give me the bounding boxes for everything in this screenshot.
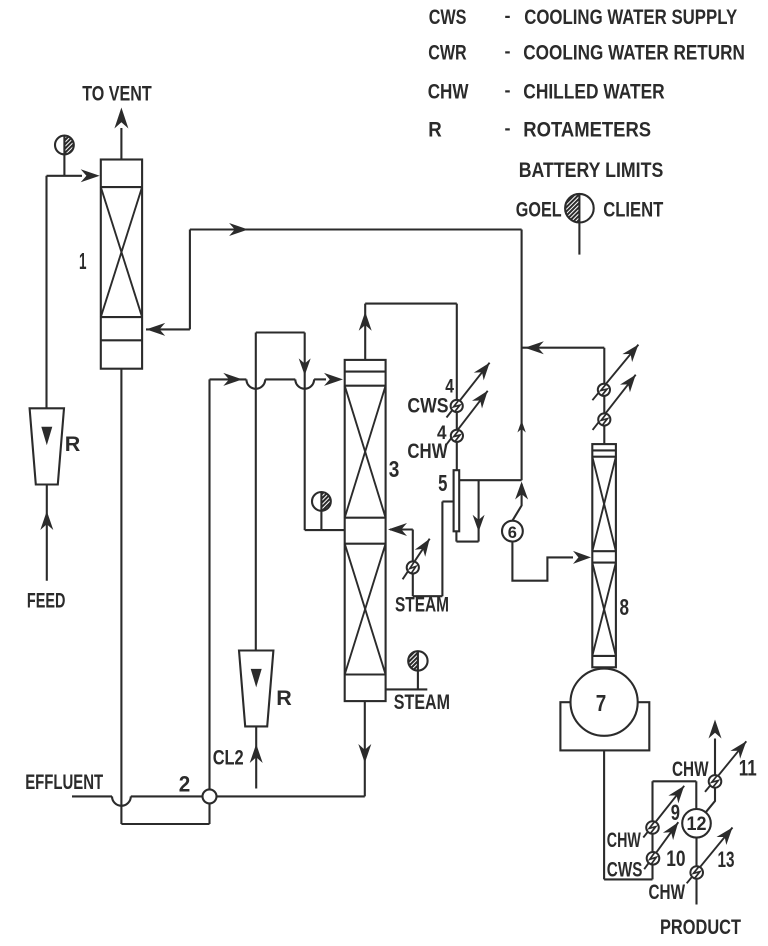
svg-text:R: R [428,118,442,142]
svg-text:11: 11 [739,756,757,781]
svg-text:CHW: CHW [607,828,641,852]
column 8 bottom band line [592,655,616,657]
svg-text:2: 2 [179,772,191,797]
wire overhead header [365,303,457,305]
wire reflux line from 5 [442,500,453,502]
wire junction2 riser [208,379,210,789]
column 8 packing X lower [592,563,616,656]
column 1 packing X [101,187,142,317]
svg-text:CHW: CHW [649,880,686,904]
svg-text:R: R [276,686,292,710]
battery limit symbol on lower inlet [321,492,330,511]
svg-text:CWS: CWS [429,5,467,29]
wire into column 3 lower inlet [305,529,345,531]
wire loop left riser [651,781,653,879]
wire condenser outlet right [459,479,521,481]
valve 4 CHW [446,391,488,446]
column 1 shell [101,160,142,369]
column 3 bottom band line [345,673,386,675]
svg-text:R: R [65,432,81,456]
wire junction 2 to column 3 drop [217,795,365,797]
line hop at CL2 riser [246,379,265,388]
wire right header drop x521 [521,230,523,481]
column 8 middle band lines [592,550,616,552]
svg-text:5: 5 [438,470,447,496]
valve on column 8 vent lower [593,375,636,430]
column 1 top band line [101,186,142,188]
column 3 shell [345,360,386,701]
steam stub line [386,688,428,690]
steam control valve [403,539,430,580]
wire valve 11 riser with arrow [714,739,716,776]
svg-text:9: 9 [671,800,680,825]
pump 6 circle [502,521,523,542]
line hop at effluent [112,796,131,805]
svg-text:EFFLUENT: EFFLUENT [25,770,103,794]
wire feed down-leg [45,176,47,408]
vessel 7 sphere [571,669,638,736]
valve 9 CHW [643,786,684,838]
svg-text:CHW: CHW [428,80,469,104]
wire CL2 riser [255,333,257,651]
valve 11 CHW [705,741,746,792]
valve 10 CWS [644,822,678,869]
wire mixer 12 to product [695,838,697,905]
column 1 lower band lines [101,316,142,318]
column 8 top band lines [592,449,616,451]
svg-text:12: 12 [687,814,707,835]
condenser 5 bar [454,470,460,531]
svg-text:COOLING WATER SUPPLY: COOLING WATER SUPPLY [524,5,737,29]
svg-text:STEAM: STEAM [395,593,449,617]
wire top header y229 [190,228,522,230]
svg-text:FEED: FEED [27,589,66,613]
column 3 packing X upper [345,386,386,518]
svg-text:1: 1 [79,248,87,274]
mixer 12 circle [682,809,711,838]
wire pump 6 discharge up [512,484,521,521]
column 3 packing X lower [345,544,386,675]
svg-text:TO VENT: TO VENT [82,81,152,105]
vent line with arrow from column 1 [120,128,122,160]
svg-text:CHW: CHW [672,757,709,781]
svg-text:-: - [505,6,511,26]
wire chlorine down-leg with arrow [304,333,306,531]
svg-text:10: 10 [666,846,685,871]
wire feed into column 1 [47,175,83,177]
svg-text:CWS: CWS [607,858,643,882]
svg-text:CLIENT: CLIENT [603,198,663,222]
svg-text:GOEL: GOEL [516,198,562,222]
feed line below rotameter with arrow [46,485,48,581]
svg-text:-: - [505,41,511,61]
wire column 1 bottoms drop [120,369,122,824]
wire pump 6 suction path [512,542,573,581]
column 3 vent riser with arrow [364,304,366,360]
valve 13 CHW [687,828,733,884]
wire loop top [653,780,697,782]
wire feed header into column 3 [210,378,247,380]
svg-text:CHILLED WATER: CHILLED WATER [523,80,665,104]
junction circle 2 [203,789,217,803]
svg-text:CHW: CHW [407,439,448,463]
column 3 top band lines [345,371,386,373]
wire hat over hops [256,331,305,333]
svg-text:3: 3 [389,456,400,482]
svg-text:6: 6 [508,524,517,542]
legend battery limit symbol [565,194,579,223]
column 8 shell [592,444,616,667]
vessel 7 cradle [560,702,649,750]
svg-text:-: - [505,80,511,100]
battery limit symbol at feed [64,136,73,155]
svg-text:CWS: CWS [407,393,448,417]
column 3 middle band lines [345,517,386,519]
line hop at chlorine down-leg [295,379,314,388]
battery limit symbol steam [408,651,418,670]
wire drop into mixer 12 [695,781,697,809]
valve on column 8 vent upper [592,345,638,401]
rotameter R feed [30,408,64,484]
svg-text:BATTERY LIMITS: BATTERY LIMITS [519,158,664,182]
wire loop bottom [604,878,652,880]
wire effluent line [72,795,112,797]
wire column 3 bottoms drop with arrow [364,701,366,796]
wire riser x190 [189,230,191,330]
wire vessel 7 bottoms drop [603,750,605,879]
wire underpass bottom [121,823,209,825]
wire condensate branch with arrow [478,480,480,541]
wire valve 11 to mixer 12 [706,788,716,813]
svg-text:COOLING WATER RETURN: COOLING WATER RETURN [523,41,745,65]
valve 4 CWS [447,363,490,418]
svg-text:STEAM: STEAM [394,690,450,714]
wire column1 outlet to riser [146,328,190,330]
rotameter R CL2 [239,651,273,727]
svg-text:7: 7 [596,690,607,716]
svg-text:8: 8 [620,594,630,620]
steam line riser with arrow into column 3 [412,530,414,597]
wire condenser bottom connector [455,531,457,541]
svg-text:13: 13 [718,847,735,872]
column 8 packing X upper [592,457,616,552]
svg-text:-: - [505,118,511,138]
svg-text:CL2: CL2 [213,746,244,770]
CL2 supply line with arrow [255,726,257,788]
svg-text:CWR: CWR [428,41,467,65]
svg-text:ROTAMETERS: ROTAMETERS [523,118,651,142]
svg-text:PRODUCT: PRODUCT [660,915,741,939]
wire overhead of column 8 [522,347,605,349]
